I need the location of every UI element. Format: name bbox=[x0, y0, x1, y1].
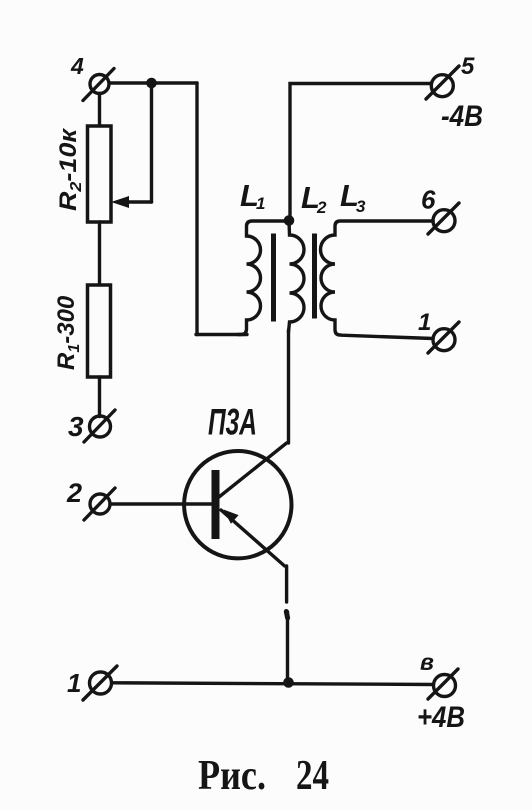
wire emitter vertical lower bbox=[286, 612, 289, 682]
node junction transformer top bbox=[284, 215, 295, 226]
svg-text:24: 24 bbox=[296, 753, 329, 799]
svg-text:1: 1 bbox=[418, 309, 431, 336]
terminal v bottom-right bbox=[428, 669, 458, 699]
terminal 3 bbox=[84, 410, 115, 442]
terminal 2 bbox=[84, 488, 115, 520]
terminal 5 bbox=[426, 66, 459, 99]
terminal 1 right bbox=[428, 322, 459, 353]
resistor R2 body bbox=[88, 126, 112, 222]
svg-text:П3А: П3А bbox=[208, 402, 257, 443]
wire terminal4 to R2 bbox=[98, 94, 101, 127]
label L3 bbox=[340, 178, 366, 216]
wire L1 bottom lead bbox=[196, 333, 247, 336]
wiper arrowhead bbox=[111, 196, 129, 208]
wire base lead bbox=[110, 502, 213, 505]
svg-text:в: в bbox=[420, 649, 434, 675]
wire wiper vertical bbox=[150, 83, 153, 202]
transformer core bar 2 bbox=[312, 234, 317, 319]
wire vertical left of transformer bbox=[195, 83, 198, 335]
terminal 1 bottom-left bbox=[83, 666, 117, 700]
wire top-right to terminal 5 bbox=[290, 84, 431, 219]
svg-text:1: 1 bbox=[256, 194, 265, 213]
svg-text:2: 2 bbox=[316, 198, 327, 217]
svg-text:R2-10к: R2-10к bbox=[55, 127, 85, 211]
node junction top-left bbox=[146, 78, 157, 89]
wire R2 to R1 bbox=[98, 222, 101, 285]
wire collector vertical bbox=[287, 330, 290, 443]
svg-text:2: 2 bbox=[66, 478, 82, 508]
svg-text:3: 3 bbox=[356, 197, 366, 216]
emitter wire nick bbox=[286, 612, 287, 619]
caption Ris. 24 bbox=[198, 753, 329, 799]
label L1 bbox=[240, 178, 265, 213]
svg-text:+4В: +4В bbox=[417, 701, 465, 734]
resistor R1 body bbox=[88, 285, 111, 377]
svg-text:-4В: -4В bbox=[441, 100, 483, 133]
wire wiper horizontal bbox=[126, 200, 152, 203]
svg-text:R1-300: R1-300 bbox=[53, 295, 83, 370]
wire R1 to terminal 3 bbox=[98, 377, 101, 417]
inductor L3 winding bbox=[321, 221, 434, 339]
svg-text:Рис.: Рис. bbox=[198, 753, 266, 799]
svg-text:6: 6 bbox=[421, 185, 436, 215]
label L2 bbox=[301, 180, 327, 217]
inductor L2 winding bbox=[289, 221, 305, 333]
node junction bottom bbox=[283, 677, 294, 688]
wire emitter vertical upper bbox=[285, 566, 288, 602]
wire bottom rail bbox=[112, 683, 433, 685]
terminal 4 bbox=[83, 69, 114, 101]
svg-text:5: 5 bbox=[461, 53, 475, 80]
transistor Q1 P3A bbox=[184, 443, 291, 566]
svg-text:3: 3 bbox=[68, 411, 84, 442]
svg-text:4: 4 bbox=[70, 53, 84, 79]
terminal 6 bbox=[428, 203, 459, 234]
svg-text:1: 1 bbox=[67, 668, 81, 698]
wire terminal4 to corner bbox=[109, 81, 197, 84]
inductor L1 winding bbox=[238, 221, 289, 335]
transformer core bar 1 bbox=[271, 234, 276, 322]
